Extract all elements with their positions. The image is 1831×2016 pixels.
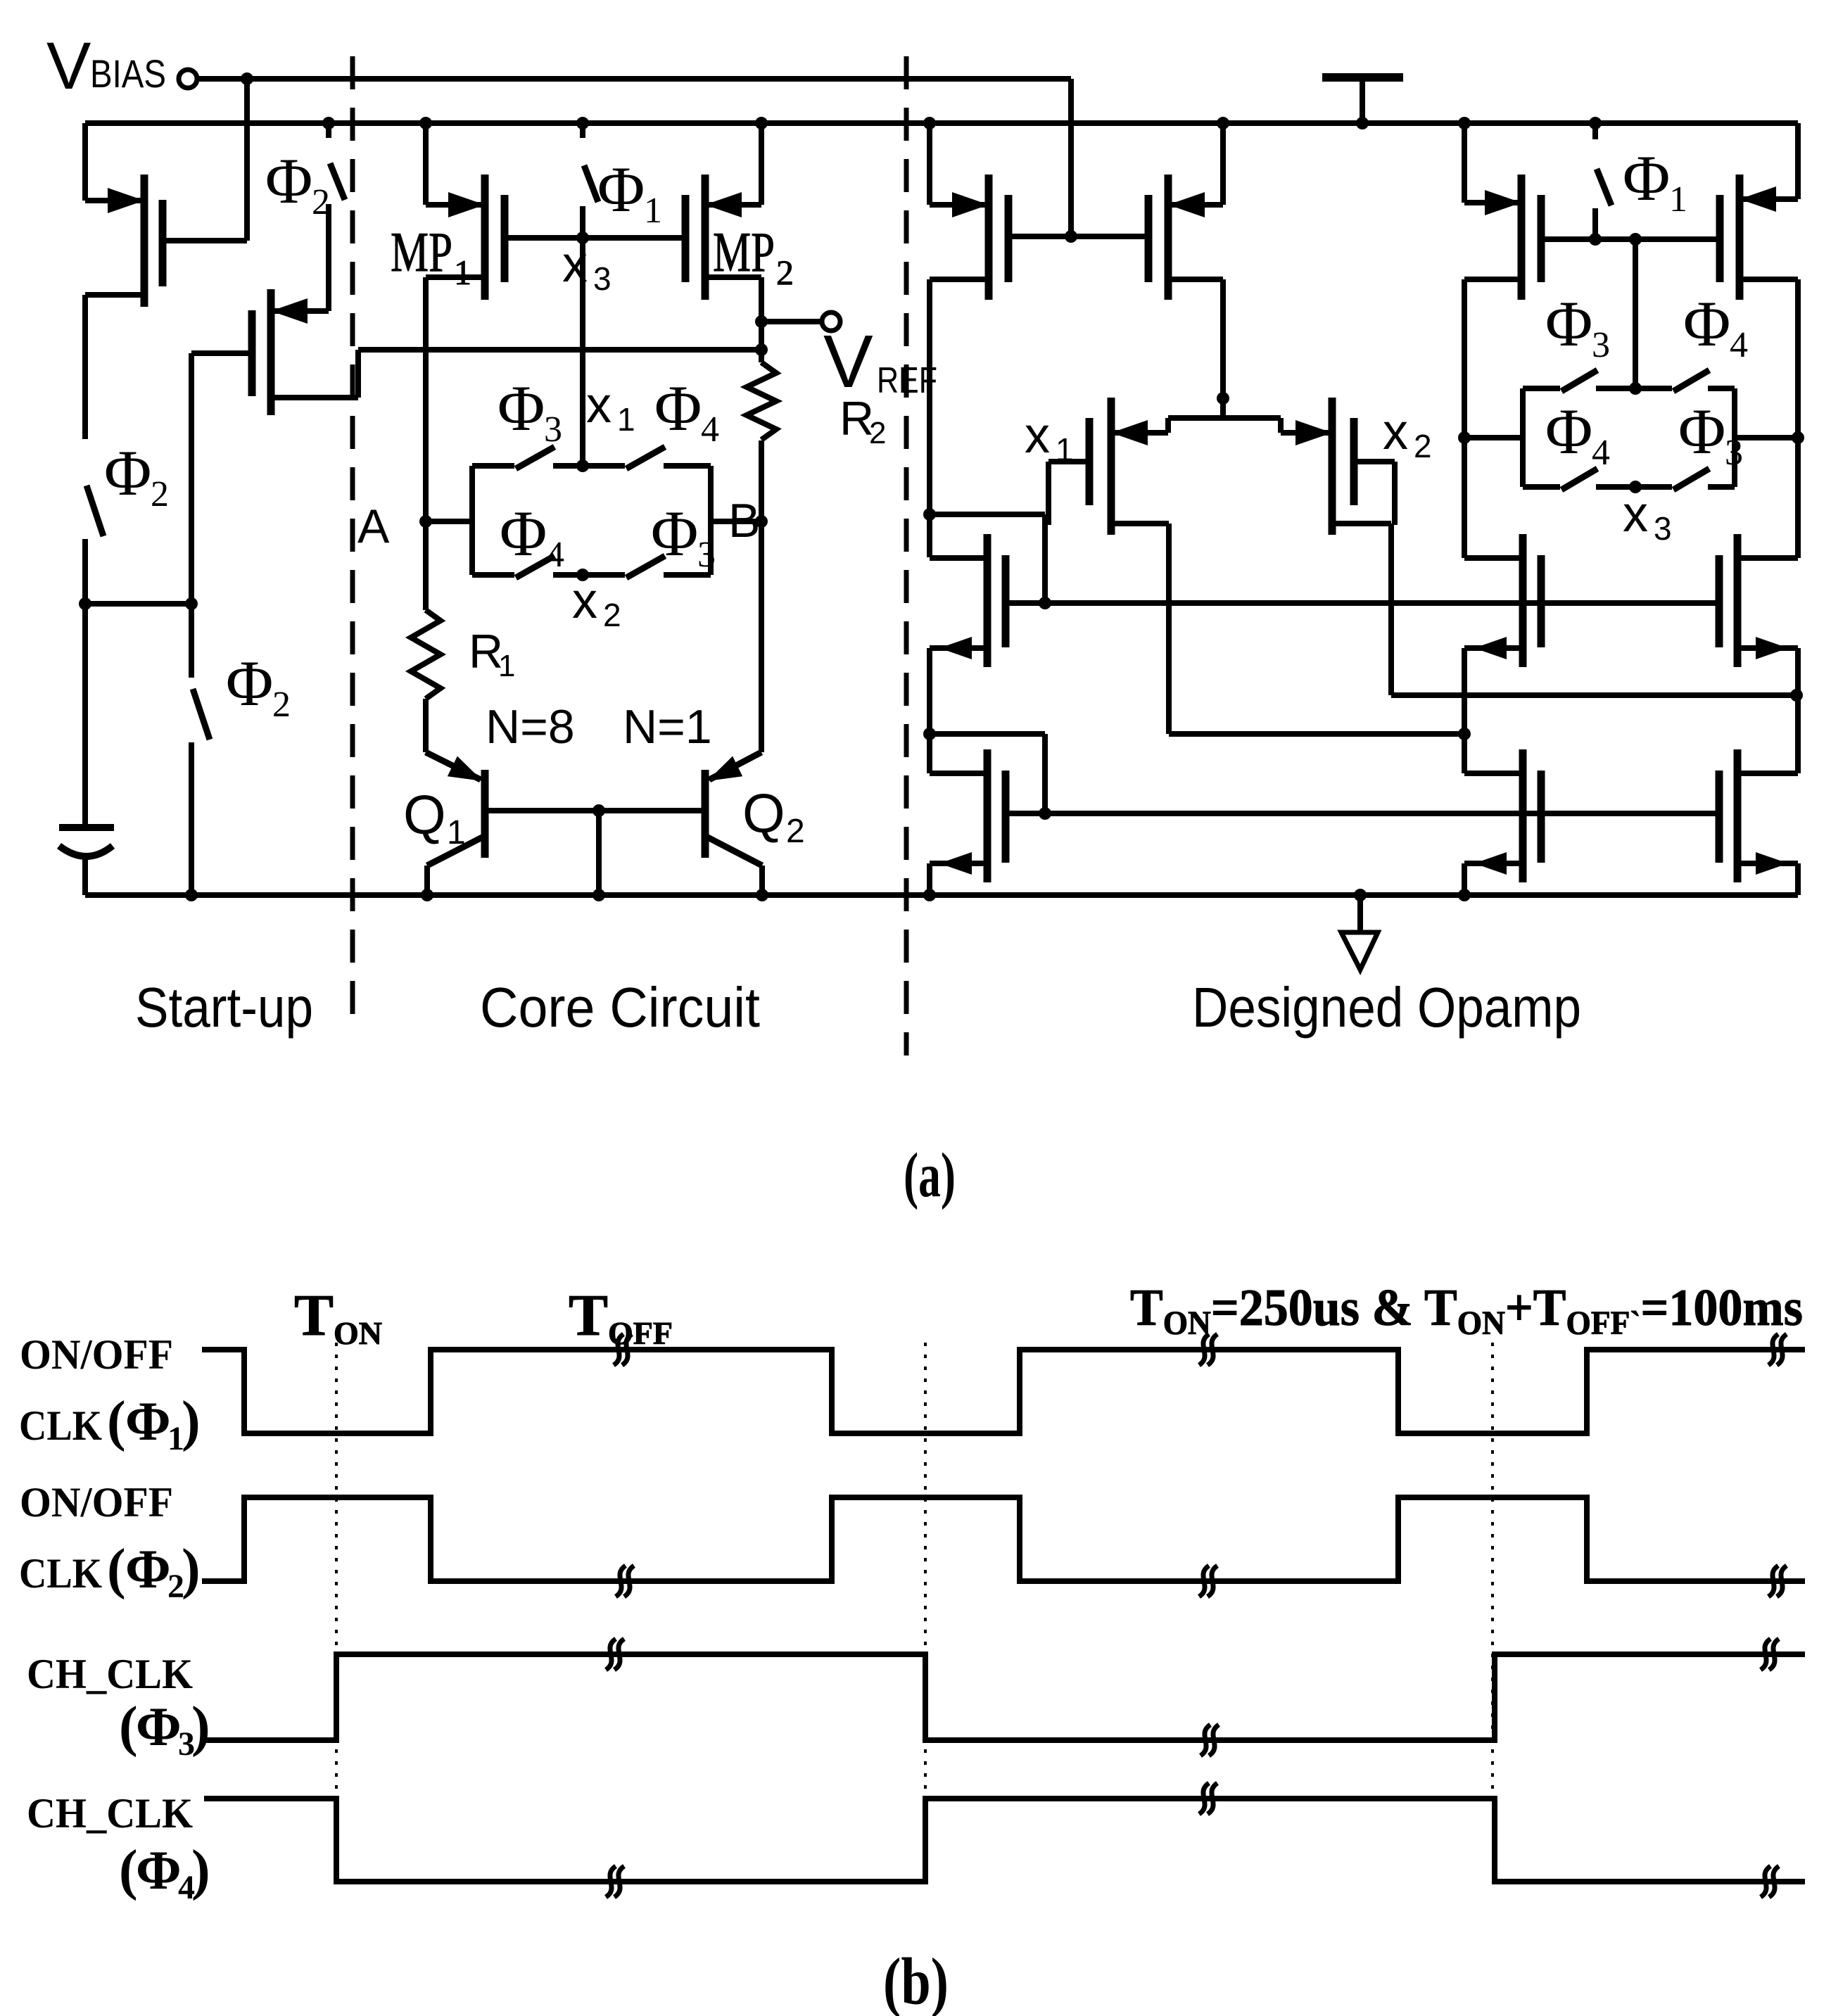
svg-text:): ) bbox=[191, 1839, 210, 1901]
svg-text:Designed Opamp: Designed Opamp bbox=[1192, 976, 1581, 1039]
svg-text:3: 3 bbox=[544, 410, 562, 450]
svg-text:CLK: CLK bbox=[19, 1550, 102, 1597]
svg-text:1: 1 bbox=[454, 253, 471, 292]
svg-text:2: 2 bbox=[776, 253, 794, 292]
svg-text:MP: MP bbox=[391, 222, 452, 284]
svg-text:MP: MP bbox=[713, 222, 775, 284]
svg-text:Q: Q bbox=[742, 782, 785, 844]
svg-text:Φ: Φ bbox=[136, 1696, 182, 1757]
svg-text:2: 2 bbox=[869, 416, 886, 450]
svg-text:4: 4 bbox=[1592, 433, 1610, 473]
svg-text:CLK: CLK bbox=[19, 1402, 102, 1449]
svg-text:Φ: Φ bbox=[1545, 395, 1592, 467]
svg-text:1: 1 bbox=[1669, 179, 1687, 220]
svg-text:Φ: Φ bbox=[136, 1839, 182, 1901]
svg-text:1: 1 bbox=[644, 191, 662, 231]
svg-text:): ) bbox=[182, 1538, 201, 1600]
svg-text:V: V bbox=[823, 320, 873, 403]
svg-text:Φ: Φ bbox=[1545, 288, 1592, 360]
svg-text:(: ( bbox=[119, 1839, 138, 1901]
svg-text:(: ( bbox=[107, 1538, 126, 1600]
svg-text:2: 2 bbox=[603, 597, 621, 633]
svg-text:1: 1 bbox=[617, 401, 635, 438]
svg-text:x: x bbox=[1025, 407, 1050, 464]
svg-text:x: x bbox=[1623, 486, 1648, 543]
svg-text:Φ: Φ bbox=[651, 497, 698, 569]
svg-text:x: x bbox=[586, 377, 612, 433]
svg-text:CH_CLK: CH_CLK bbox=[27, 1790, 193, 1837]
svg-text:Φ: Φ bbox=[125, 1390, 171, 1452]
svg-text:3: 3 bbox=[697, 535, 716, 575]
svg-text:Φ: Φ bbox=[498, 372, 545, 444]
svg-text:Φ: Φ bbox=[104, 437, 151, 509]
svg-text:3: 3 bbox=[1725, 433, 1743, 473]
svg-text:Φ: Φ bbox=[1683, 288, 1730, 360]
svg-text:N=8: N=8 bbox=[486, 700, 575, 754]
svg-text:1: 1 bbox=[1056, 431, 1074, 468]
svg-text:Φ: Φ bbox=[500, 497, 547, 569]
svg-text:CH_CLK: CH_CLK bbox=[27, 1651, 193, 1697]
svg-text:A: A bbox=[357, 500, 390, 553]
svg-text:4: 4 bbox=[701, 410, 719, 450]
svg-text:2: 2 bbox=[151, 474, 169, 514]
svg-text:3: 3 bbox=[593, 260, 612, 297]
svg-text:(a): (a) bbox=[904, 1141, 956, 1210]
svg-text:1: 1 bbox=[447, 814, 466, 851]
svg-text:2: 2 bbox=[272, 685, 291, 725]
svg-text:N=1: N=1 bbox=[623, 700, 712, 754]
svg-text:): ) bbox=[182, 1390, 201, 1452]
svg-text:(: ( bbox=[107, 1390, 126, 1452]
svg-text:2: 2 bbox=[1414, 428, 1432, 464]
svg-text:x: x bbox=[572, 573, 597, 629]
svg-text:Φ: Φ bbox=[226, 647, 273, 719]
svg-text:Φ: Φ bbox=[1623, 142, 1670, 214]
svg-text:ON/OFF: ON/OFF bbox=[20, 1331, 173, 1378]
svg-text:Φ: Φ bbox=[265, 145, 312, 217]
svg-text:Φ: Φ bbox=[1678, 395, 1725, 467]
svg-text:Core Circuit: Core Circuit bbox=[480, 976, 760, 1039]
svg-text:4: 4 bbox=[546, 535, 564, 575]
svg-text:3: 3 bbox=[1654, 510, 1672, 547]
svg-text:Φ: Φ bbox=[125, 1538, 171, 1599]
svg-text:2: 2 bbox=[786, 813, 805, 850]
svg-text:ON/OFF: ON/OFF bbox=[20, 1479, 173, 1526]
svg-text:x: x bbox=[1383, 404, 1408, 460]
svg-text:(: ( bbox=[119, 1696, 138, 1758]
svg-text:): ) bbox=[191, 1696, 210, 1758]
svg-text:4: 4 bbox=[1730, 325, 1748, 365]
svg-text:3: 3 bbox=[1592, 325, 1610, 365]
svg-text:1: 1 bbox=[498, 649, 515, 683]
svg-text:(b): (b) bbox=[883, 1944, 949, 2016]
svg-text:Start-up: Start-up bbox=[135, 976, 313, 1039]
svg-text:BIAS: BIAS bbox=[90, 51, 166, 96]
svg-text:Φ: Φ bbox=[654, 372, 702, 444]
svg-text:V: V bbox=[46, 29, 91, 103]
svg-text:Q: Q bbox=[403, 784, 446, 846]
svg-text:Φ: Φ bbox=[597, 153, 645, 225]
